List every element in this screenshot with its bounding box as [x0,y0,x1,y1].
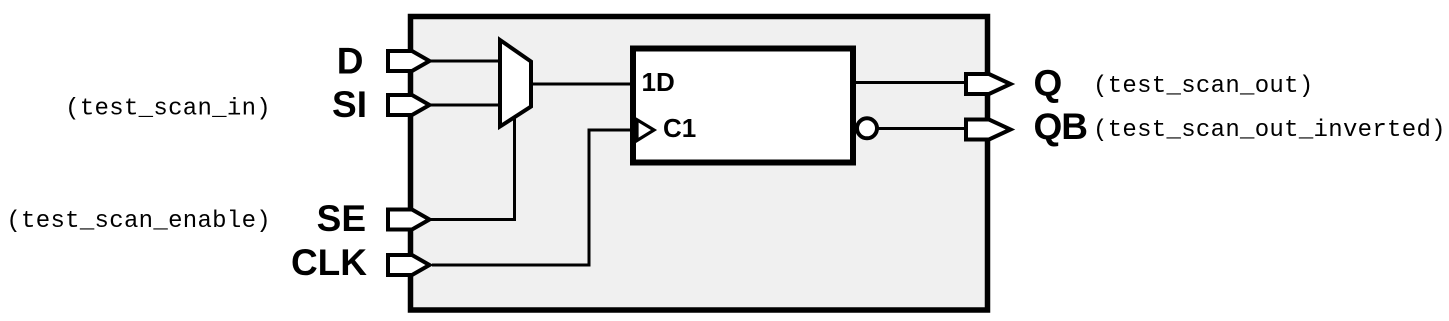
svg-text:1D: 1D [642,67,675,97]
svg-text:D: D [337,41,364,82]
cell boundary (scan flip-flop cell outline) [411,17,988,311]
pin CLK [388,255,430,275]
svg-text:Q: Q [1034,63,1063,104]
pin QB [966,120,1011,140]
svg-text:(test_scan_out): (test_scan_out) [1093,73,1314,100]
svg-text:(test_scan_enable): (test_scan_enable) [6,208,271,235]
clock edge triangle on C1 [637,120,654,141]
wire D to mux [428,60,504,63]
wire CLK to C1 [432,130,635,265]
svg-text:(test_scan_in): (test_scan_in) [65,96,271,123]
pin Q [966,74,1011,94]
wire QB output [875,127,967,130]
mux U1 (scan multiplexer) [500,40,531,127]
wire Q output [851,81,967,84]
inversion bubble on QB [857,118,877,138]
wire SI to mux [428,104,504,107]
pin SE [388,210,430,230]
svg-text:C1: C1 [663,113,696,143]
svg-text:SE: SE [317,198,366,239]
svg-text:CLK: CLK [291,242,367,283]
wire mux output to 1D [529,83,635,86]
flip-flop U2 body [633,49,853,163]
svg-text:QB: QB [1034,106,1088,147]
svg-text:SI: SI [332,84,367,125]
pin SI [388,95,430,115]
pin D [388,51,430,71]
wire SE to mux select [430,117,515,220]
svg-text:(test_scan_out_inverted): (test_scan_out_inverted) [1093,117,1446,144]
